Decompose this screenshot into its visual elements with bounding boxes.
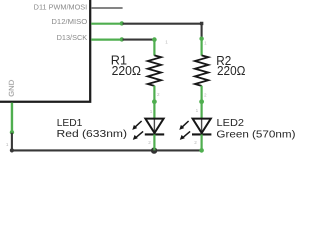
svg-text:1: 1 [6,142,9,147]
svg-text:1: 1 [204,41,207,46]
LED2 emission arrow upper [179,121,188,130]
resistor R1 [148,39,169,101]
R1 zigzag [148,55,161,86]
wire GND to bottom rail [12,133,154,151]
pin D13 (green leg) [91,38,123,40]
svg-text:220Ω: 220Ω [217,64,245,78]
MCU U1 body edge (right + bottom) [0,0,90,102]
LED1 cathode leg [153,134,155,150]
svg-text:2: 2 [148,140,151,145]
R2 top pin leg [201,37,203,56]
LED2 triangle [193,119,211,133]
wire D12 to R2 top [123,24,202,38]
svg-text:220Ω: 220Ω [112,64,141,78]
wire endpoint dot at D13 [120,37,124,41]
svg-text:1: 1 [165,39,168,44]
LED2 cathode leg [201,134,203,150]
R2 bottom pin leg [201,86,203,102]
pin D11 (unconnected, gray) [91,7,122,9]
wire endpoint dot R2/LED2 (green) [199,99,204,104]
wire endpoint dot at R2 top (green) [199,37,203,41]
svg-text:Red (633nm): Red (633nm) [57,128,128,140]
svg-text:1: 1 [150,109,153,114]
pin GND (green leg) [11,103,13,133]
LED1 anode leg [153,102,155,119]
LED2 anode leg [201,102,203,119]
LED2 [179,102,211,151]
svg-text:Green (570nm): Green (570nm) [216,129,295,141]
LED1 emission arrow upper [132,121,141,130]
wire endpoint dot at R1 top (green, connected) [152,37,157,42]
wire endpoint dot R1/LED1 (green) [152,99,157,104]
wire endpoint dot at GND [10,130,14,134]
svg-text:D11 PWM/MOSI: D11 PWM/MOSI [34,5,88,12]
LED1 internal pin line [153,119,155,133]
LED1 emission arrow lower [133,131,143,140]
resistor R2 [195,37,208,102]
LED2 cathode bar [192,133,211,135]
bottom rail wire junction to LED2 [154,149,202,151]
LED1 triangle [145,119,163,133]
svg-text:LED2: LED2 [217,117,245,129]
wire endpoint dot at D12 [120,21,124,25]
svg-text:GND: GND [9,80,16,97]
svg-text:D13/SCK: D13/SCK [57,35,88,42]
svg-text:2: 2 [204,92,207,97]
bendpoint dot at R2 corner [200,22,203,25]
LED2 emission arrow lower [180,131,190,140]
R1 bottom pin leg [153,86,155,102]
wire endpoint dot at LED2 cathode (green) [199,148,204,153]
svg-text:1: 1 [196,108,199,113]
pin D12 (green leg) [91,23,123,25]
LED1 [132,102,164,151]
R2 zigzag [195,55,208,86]
junction dot [151,147,157,153]
LED1 cathode bar [145,133,164,135]
svg-text:D12/MISO: D12/MISO [51,19,87,26]
R1 top pin leg [153,40,155,56]
bendpoint dot at GND corner [10,148,14,152]
svg-text:2: 2 [194,140,197,145]
wire D13 to R1 top [123,39,155,41]
LED2 internal pin line [201,119,203,133]
svg-text:2: 2 [157,92,160,97]
